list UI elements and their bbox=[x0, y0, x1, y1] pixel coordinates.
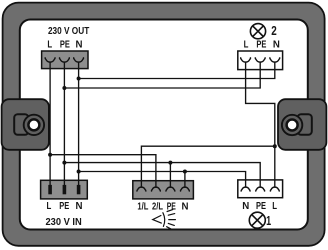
svg-text:N: N bbox=[76, 39, 83, 50]
clamp lamp2 N bbox=[270, 57, 280, 62]
svg-text:2: 2 bbox=[271, 23, 277, 38]
clamp N out bbox=[74, 57, 84, 62]
clamp L out bbox=[45, 57, 55, 62]
wire PE branch to lamp2 PE bbox=[64, 62, 260, 88]
node PE-left bbox=[62, 161, 66, 165]
wire N bottom run to lamp1 N bbox=[79, 172, 246, 188]
node PE-switch bbox=[168, 161, 172, 165]
wire L feed to 2/L bbox=[50, 155, 156, 188]
clamp lamp2 PE bbox=[255, 57, 265, 62]
svg-text:L: L bbox=[244, 40, 249, 51]
svg-text:1: 1 bbox=[266, 213, 271, 228]
svg-text:PE: PE bbox=[59, 201, 69, 212]
left lug screw hole bbox=[28, 119, 39, 130]
terminal block lamp 2 clamps bbox=[241, 57, 280, 62]
node N-left bbox=[77, 170, 81, 174]
terminal block lamp 1 clamps bbox=[241, 187, 279, 191]
wire PE stub to switch PE bbox=[169, 163, 171, 188]
node switched-L bbox=[273, 144, 277, 148]
svg-text:L: L bbox=[47, 201, 52, 212]
right lug screw hole bbox=[287, 120, 298, 131]
clamp PE out bbox=[59, 57, 69, 62]
pin L in bbox=[48, 185, 52, 194]
wire N stub to switch N bbox=[184, 172, 186, 188]
clamp 1/L bbox=[137, 187, 146, 191]
svg-text:PE: PE bbox=[60, 39, 70, 50]
clamp lamp1 L bbox=[270, 187, 279, 191]
clamp switch PE bbox=[166, 187, 175, 191]
wire PE bottom run to lamp1 PE bbox=[64, 163, 260, 188]
svg-text:N: N bbox=[273, 40, 280, 51]
terminal block 230V OUT clamps bbox=[45, 57, 83, 62]
svg-text:PE: PE bbox=[256, 40, 266, 51]
clamp switch N bbox=[180, 187, 189, 191]
wire switched L to 1/L bbox=[141, 146, 274, 188]
block body 230V IN bbox=[41, 180, 88, 199]
node N-switch bbox=[183, 170, 187, 174]
right lug screw boss bbox=[282, 115, 302, 135]
block body lamp 1 bbox=[238, 180, 283, 198]
clamp 2/L bbox=[151, 187, 160, 191]
node PE-top bbox=[62, 86, 66, 90]
terminal block switch clamps bbox=[137, 187, 189, 191]
wire lamp2 L down right side to junction bbox=[246, 62, 275, 188]
clamp lamp1 PE bbox=[256, 187, 265, 191]
node N-top bbox=[77, 77, 81, 81]
right lug bracket bbox=[298, 114, 312, 135]
svg-text:N: N bbox=[76, 201, 83, 212]
block body switch bbox=[133, 181, 194, 199]
block body 230V OUT bbox=[42, 51, 88, 69]
terminal block 230V IN pins bbox=[48, 185, 80, 194]
pin N in bbox=[77, 185, 81, 194]
svg-text:PE: PE bbox=[256, 201, 266, 212]
node L-feed bbox=[48, 153, 52, 157]
svg-text:2/L: 2/L bbox=[152, 201, 163, 212]
left lug bracket bbox=[14, 114, 28, 135]
svg-text:230 V OUT: 230 V OUT bbox=[48, 26, 90, 37]
switch pictogram bbox=[153, 210, 176, 230]
wire PE: 230V OUT PE down to 230V IN PE bbox=[63, 62, 65, 186]
svg-text:N: N bbox=[182, 201, 189, 212]
wire N: 230V OUT N down to 230V IN N bbox=[78, 62, 80, 186]
wire L: 230V OUT L down to 230V IN L bbox=[49, 62, 51, 186]
box inner cavity bbox=[20, 20, 308, 230]
lamp 1 symbol bbox=[249, 212, 265, 228]
svg-text:N: N bbox=[242, 201, 249, 212]
block body lamp 2 bbox=[238, 51, 283, 70]
svg-text:1/L: 1/L bbox=[137, 201, 148, 212]
svg-text:230 V IN: 230 V IN bbox=[45, 217, 81, 228]
left mounting lug bbox=[2, 99, 49, 150]
clamp lamp2 L bbox=[241, 57, 251, 62]
lamp 2 symbol bbox=[250, 24, 265, 39]
wire N branch to lamp2 N bbox=[79, 62, 275, 79]
clamp lamp1 N bbox=[241, 187, 250, 191]
right mounting lug bbox=[278, 99, 326, 150]
svg-text:L: L bbox=[47, 39, 52, 50]
svg-text:L: L bbox=[272, 201, 277, 212]
pin PE in bbox=[63, 185, 67, 194]
left lug screw boss bbox=[24, 115, 44, 135]
